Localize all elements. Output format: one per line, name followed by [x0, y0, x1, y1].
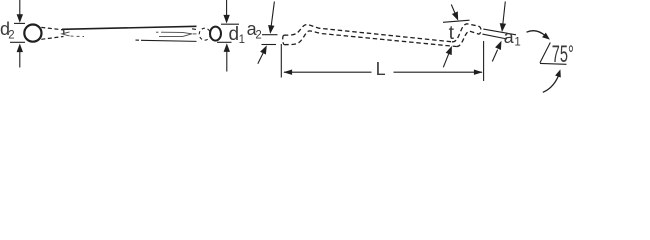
svg-text:2: 2	[8, 29, 14, 41]
svg-text:1: 1	[239, 34, 245, 46]
svg-text:d: d	[229, 24, 240, 45]
svg-text:75°: 75°	[552, 41, 574, 68]
svg-text:t: t	[449, 22, 455, 44]
svg-text:2: 2	[255, 30, 261, 42]
svg-text:L: L	[376, 59, 386, 79]
svg-text:a: a	[504, 27, 515, 47]
svg-text:1: 1	[514, 37, 520, 49]
